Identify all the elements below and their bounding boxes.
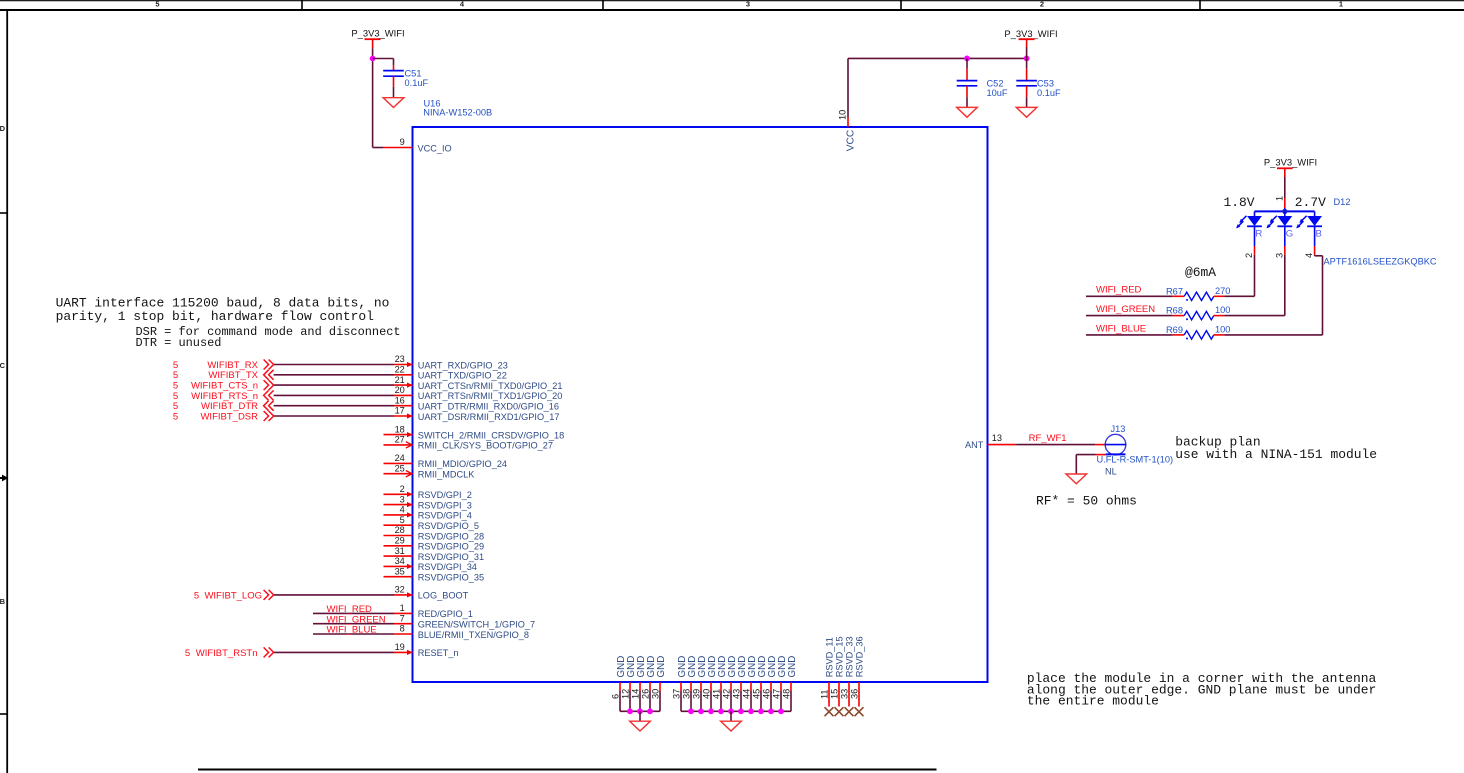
svg-text:17: 17 (395, 406, 405, 416)
svg-text:RSVD/GPI_4: RSVD/GPI_4 (418, 511, 472, 521)
svg-text:15: 15 (830, 689, 840, 699)
svg-text:use with a NINA-151 module: use with a NINA-151 module (1175, 447, 1377, 462)
svg-text:2.7V: 2.7V (1295, 195, 1326, 210)
svg-text:40: 40 (702, 689, 712, 699)
svg-text:19: 19 (395, 642, 405, 652)
svg-text:31: 31 (395, 546, 405, 556)
svg-text:@6mA: @6mA (1185, 265, 1216, 280)
svg-text:2: 2 (400, 484, 405, 494)
svg-text:22: 22 (395, 365, 405, 375)
svg-text:R67: R67 (1166, 286, 1183, 296)
svg-text:parity, 1 stop bit, hardware f: parity, 1 stop bit, hardware flow contro… (56, 309, 375, 324)
svg-text:APTF1616LSEEZGKQBKC: APTF1616LSEEZGKQBKC (1324, 256, 1437, 266)
svg-text:47: 47 (772, 689, 782, 699)
svg-text:R: R (1255, 229, 1262, 240)
svg-text:37: 37 (672, 689, 682, 699)
svg-text:RSVD/GPIO_35: RSVD/GPIO_35 (418, 573, 484, 583)
svg-text:DTR = unused: DTR = unused (136, 336, 222, 350)
svg-text:100: 100 (1215, 305, 1230, 315)
svg-text:33: 33 (840, 689, 850, 699)
svg-text:G: G (1286, 229, 1293, 240)
svg-text:24: 24 (395, 453, 405, 463)
svg-text:RSVD/GPI_34: RSVD/GPI_34 (418, 562, 477, 572)
svg-text:5: 5 (194, 590, 199, 601)
svg-text:100: 100 (1215, 324, 1230, 334)
svg-text:RSVD_11: RSVD_11 (825, 637, 835, 677)
svg-text:BLUE/RMII_TXEN/GPIO_8: BLUE/RMII_TXEN/GPIO_8 (418, 630, 529, 640)
svg-text:RSVD_36: RSVD_36 (855, 636, 865, 677)
svg-text:ANT: ANT (965, 440, 984, 450)
svg-text:RSVD_15: RSVD_15 (835, 636, 845, 677)
svg-text:SWITCH_2/RMII_CRSDV/GPIO_18: SWITCH_2/RMII_CRSDV/GPIO_18 (418, 430, 565, 440)
svg-text:UART_TXD/GPIO_22: UART_TXD/GPIO_22 (418, 371, 507, 381)
svg-text:1.8V: 1.8V (1224, 195, 1255, 210)
svg-text:4: 4 (400, 505, 405, 515)
svg-text:WIFI_RED: WIFI_RED (1096, 285, 1142, 296)
svg-text:RF* = 50 ohms: RF* = 50 ohms (1036, 494, 1137, 509)
svg-text:0.1uF: 0.1uF (405, 78, 429, 88)
svg-text:P_3V3_WIFI: P_3V3_WIFI (1004, 28, 1057, 39)
svg-text:GND: GND (787, 656, 798, 678)
svg-text:4: 4 (1304, 253, 1314, 258)
svg-text:D: D (0, 124, 6, 133)
svg-text:1: 1 (1339, 0, 1343, 9)
svg-text:34: 34 (395, 556, 405, 566)
svg-text:28: 28 (395, 525, 405, 535)
svg-text:GREEN/SWITCH_1/GPIO_7: GREEN/SWITCH_1/GPIO_7 (418, 620, 535, 630)
svg-text:RMII_MDIO/GPIO_24: RMII_MDIO/GPIO_24 (418, 459, 507, 469)
svg-text:41: 41 (712, 689, 722, 699)
svg-text:RSVD/GPI_3: RSVD/GPI_3 (418, 500, 472, 510)
svg-text:UART_DSR/RMII_RXD1/GPIO_17: UART_DSR/RMII_RXD1/GPIO_17 (418, 412, 560, 422)
svg-text:1: 1 (400, 603, 405, 613)
svg-text:45: 45 (752, 689, 762, 699)
svg-text:36: 36 (850, 689, 860, 699)
svg-text:26: 26 (641, 689, 651, 699)
svg-text:UART_CTSn/RMII_TXD0/GPIO_21: UART_CTSn/RMII_TXD0/GPIO_21 (418, 381, 563, 391)
svg-text:9: 9 (400, 137, 405, 147)
svg-text:10uF: 10uF (987, 88, 1008, 98)
svg-text:5: 5 (173, 411, 178, 422)
svg-text:WIFI_BLUE: WIFI_BLUE (1096, 323, 1146, 334)
svg-text:VCC: VCC (845, 130, 856, 152)
svg-text:RF_WF1: RF_WF1 (1029, 433, 1067, 444)
svg-text:WIFIBT_DSR: WIFIBT_DSR (200, 411, 258, 422)
svg-text:10: 10 (838, 110, 848, 120)
svg-text:UART_RTSn/RMII_TXD1/GPIO_20: UART_RTSn/RMII_TXD1/GPIO_20 (418, 391, 563, 401)
svg-text:3: 3 (400, 494, 405, 504)
svg-text:8: 8 (400, 624, 405, 634)
svg-text:R69: R69 (1166, 325, 1183, 335)
svg-text:NINA-W152-00B: NINA-W152-00B (423, 108, 492, 118)
svg-text:3: 3 (1274, 253, 1284, 258)
svg-text:UART_RXD/GPIO_23: UART_RXD/GPIO_23 (418, 360, 508, 370)
svg-text:C: C (0, 361, 6, 370)
svg-text:43: 43 (732, 689, 742, 699)
svg-text:WIFIBT_LOG: WIFIBT_LOG (204, 590, 262, 601)
svg-text:RSVD/GPI_2: RSVD/GPI_2 (418, 490, 472, 500)
svg-text:VCC_IO: VCC_IO (418, 143, 452, 153)
svg-text:6: 6 (611, 694, 621, 699)
svg-text:RESET_n: RESET_n (418, 648, 459, 658)
svg-text:32: 32 (395, 585, 405, 595)
svg-text:42: 42 (722, 689, 732, 699)
svg-text:38: 38 (682, 689, 692, 699)
svg-text:RSVD_33: RSVD_33 (845, 636, 855, 677)
svg-text:1: 1 (1274, 196, 1284, 201)
svg-text:0.1uF: 0.1uF (1037, 88, 1061, 98)
svg-text:2: 2 (1244, 253, 1254, 258)
svg-text:270: 270 (1215, 286, 1230, 296)
svg-text:13: 13 (992, 433, 1002, 443)
svg-text:RSVD/GPIO_28: RSVD/GPIO_28 (418, 531, 484, 541)
svg-text:WIFI_GREEN: WIFI_GREEN (1096, 304, 1155, 315)
svg-text:RMII_CLK/SYS_BOOT/GPIO_27: RMII_CLK/SYS_BOOT/GPIO_27 (418, 441, 553, 451)
svg-text:3: 3 (746, 0, 750, 9)
svg-text:23: 23 (395, 354, 405, 364)
svg-text:R68: R68 (1166, 306, 1183, 316)
svg-text:39: 39 (692, 689, 702, 699)
svg-text:J13: J13 (1111, 424, 1126, 434)
svg-text:20: 20 (395, 385, 405, 395)
svg-text:35: 35 (395, 566, 405, 576)
svg-text:WIFIBT_RSTn: WIFIBT_RSTn (196, 648, 258, 659)
svg-text:P_3V3_WIFI: P_3V3_WIFI (351, 28, 404, 39)
svg-text:7: 7 (400, 613, 405, 623)
svg-text:48: 48 (782, 689, 792, 699)
svg-text:5: 5 (400, 515, 405, 525)
svg-text:25: 25 (395, 463, 405, 473)
svg-text:WIFI_BLUE: WIFI_BLUE (327, 625, 377, 636)
svg-text:27: 27 (395, 435, 405, 445)
svg-text:46: 46 (762, 689, 772, 699)
svg-text:the entire module: the entire module (1027, 693, 1159, 708)
svg-text:D12: D12 (1334, 197, 1351, 207)
svg-text:NL: NL (1105, 467, 1117, 477)
svg-text:14: 14 (631, 689, 641, 699)
svg-text:21: 21 (395, 375, 405, 385)
svg-text:29: 29 (395, 536, 405, 546)
svg-text:11: 11 (820, 689, 830, 699)
svg-text:18: 18 (395, 424, 405, 434)
svg-text:RSVD/GPIO_29: RSVD/GPIO_29 (418, 542, 484, 552)
svg-text:RSVD/GPIO_5: RSVD/GPIO_5 (418, 521, 479, 531)
svg-text:RMII_MDCLK: RMII_MDCLK (418, 470, 476, 480)
svg-text:12: 12 (621, 689, 631, 699)
svg-text:5: 5 (155, 0, 159, 9)
svg-text:UART_DTR/RMII_RXD0/GPIO_16: UART_DTR/RMII_RXD0/GPIO_16 (418, 402, 559, 412)
svg-text:2: 2 (1040, 0, 1044, 9)
svg-text:5: 5 (185, 648, 190, 659)
svg-text:LOG_BOOT: LOG_BOOT (418, 591, 469, 601)
svg-text:GND: GND (656, 656, 667, 678)
svg-text:RED/GPIO_1: RED/GPIO_1 (418, 609, 473, 619)
svg-text:U.FL-R-SMT-1(10): U.FL-R-SMT-1(10) (1097, 454, 1174, 464)
svg-text:RSVD/GPIO_31: RSVD/GPIO_31 (418, 552, 484, 562)
svg-text:B: B (1316, 229, 1322, 240)
svg-text:16: 16 (395, 395, 405, 405)
svg-text:44: 44 (742, 689, 752, 699)
svg-text:30: 30 (651, 689, 661, 699)
svg-text:P_3V3_WIFI: P_3V3_WIFI (1264, 157, 1317, 168)
svg-text:B: B (0, 597, 6, 606)
